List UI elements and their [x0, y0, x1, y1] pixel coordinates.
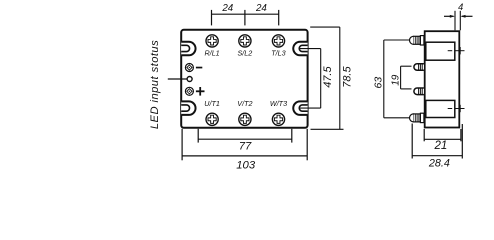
dimension 24/24 top: line [212, 13, 279, 15]
dimension 28.4 extension lines [412, 124, 462, 159]
dimension 21 ticks [424, 129, 461, 141]
svg-text:V/T2: V/T2 [237, 99, 252, 108]
side view top terminal cover [426, 42, 455, 60]
svg-text:4: 4 [458, 2, 463, 13]
front view body outline [181, 30, 307, 128]
mounting slot top-left inner [181, 45, 189, 51]
extension line bottom right for 78.5 [311, 128, 344, 130]
dimension 63: extension lines [384, 40, 410, 118]
mounting slot bottom-left inner [181, 105, 189, 111]
mounting slot top-left outer [181, 42, 195, 56]
svg-text:19: 19 [391, 74, 402, 86]
svg-text:77: 77 [239, 141, 252, 153]
dimension line 28.4 [412, 155, 462, 157]
extension lines 103 [182, 129, 307, 161]
svg-text:47.5: 47.5 [322, 66, 334, 88]
dimension 4: arrows [444, 15, 473, 17]
svg-text:24: 24 [255, 3, 267, 14]
dimension 24 ticks [212, 10, 279, 26]
svg-text:21: 21 [434, 140, 448, 152]
terminal screw W/T3 [272, 113, 284, 125]
top mounting hole centerline [448, 47, 465, 54]
svg-text:78.5: 78.5 [341, 66, 353, 88]
terminal screw U/T1 [206, 113, 218, 125]
side view bottom terminal cover [426, 100, 455, 117]
svg-text:63: 63 [373, 77, 385, 89]
plus sign [196, 87, 205, 96]
dimension 4: extension lines [455, 11, 460, 31]
dimension line 63 [383, 40, 385, 118]
input terminal minus [185, 64, 193, 72]
terminal screw S/L2 [239, 35, 251, 47]
dimension line 103 [182, 155, 307, 157]
side view body outline [425, 31, 460, 127]
svg-text:T/L3: T/L3 [271, 49, 285, 58]
mounting slot bottom-left outer [181, 101, 195, 115]
terminal screw V/T2 [239, 113, 251, 125]
dimension line 47.5 [320, 49, 322, 109]
leader line to LED [168, 78, 187, 80]
terminal screw T/L3 [272, 35, 284, 47]
side view input bump bottom [414, 88, 424, 95]
dimension line 19 [400, 66, 402, 89]
dimension line 78.5 [339, 27, 341, 129]
mounting slot bottom-right outer [293, 101, 307, 115]
dimension 77 ticks [198, 129, 292, 143]
LED indicator [187, 77, 192, 82]
svg-text:28.4: 28.4 [428, 157, 450, 169]
terminal screw R/L1 [206, 35, 218, 47]
dimension 19: extension lines [401, 66, 412, 89]
svg-text:103: 103 [236, 159, 256, 171]
minus sign [196, 67, 202, 69]
svg-text:24: 24 [221, 3, 233, 14]
dimension line 77 [198, 138, 292, 140]
mounting slot bottom-right inner [299, 105, 307, 111]
svg-text:LED input stotus: LED input stotus [149, 40, 161, 129]
mounting slot top-right inner [299, 45, 307, 51]
extension line bottom for 47.5 [299, 107, 321, 109]
dimension line 21 [424, 138, 461, 140]
extension line top right for 78.5 [310, 26, 340, 28]
side view screw bottom [410, 113, 424, 122]
svg-text:W/T3: W/T3 [270, 99, 287, 108]
bottom mounting hole centerline [448, 105, 465, 112]
input terminal plus [185, 87, 193, 95]
extension line top for 47.5 [299, 48, 321, 50]
side view input bump top [414, 64, 424, 71]
mounting slot top-right outer [293, 42, 307, 56]
svg-text:R/L1: R/L1 [205, 49, 220, 58]
side view screw top [410, 36, 424, 45]
svg-text:U/T1: U/T1 [204, 99, 220, 108]
svg-text:S/L2: S/L2 [238, 49, 253, 58]
